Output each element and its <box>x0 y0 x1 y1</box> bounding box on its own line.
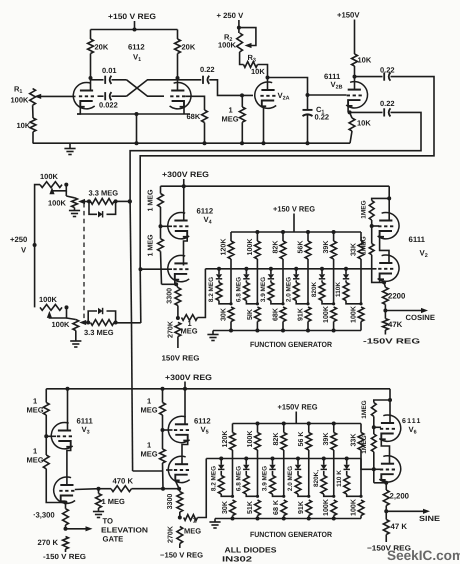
resistor 20K (right) <box>175 39 181 54</box>
wire cross-coupling plate-to-grid <box>127 80 165 96</box>
node V2A plate <box>266 76 270 80</box>
label 0.01 <box>102 66 117 75</box>
svg-text:56K: 56K <box>296 240 304 254</box>
node V2B grid junction <box>306 93 310 97</box>
svg-text:1: 1 <box>147 397 151 406</box>
wire right plate wire <box>177 54 179 90</box>
svg-text:0.22: 0.22 <box>200 65 215 74</box>
potentiometer 100K (upper az) <box>40 182 62 188</box>
svg-text:+150 V REG: +150 V REG <box>108 12 156 21</box>
label SINE <box>419 514 440 523</box>
label 6112 (V4) <box>197 207 214 216</box>
svg-text:+150 V REG: +150 V REG <box>273 205 315 214</box>
svg-text:100K: 100K <box>246 430 254 448</box>
label 6111 (V6) <box>402 418 422 425</box>
label 68K <box>187 112 201 121</box>
label R1 <box>14 85 22 96</box>
node V4b grid tap <box>139 267 143 271</box>
svg-text:−150 V REG: −150 V REG <box>160 551 203 560</box>
label 820K (cos col5) <box>311 281 318 297</box>
wire diode lead (cos col6) <box>345 269 347 274</box>
resistor 1 MEG (to gnd) <box>96 489 102 512</box>
svg-text:+250: +250 <box>10 235 27 244</box>
wire R2 wiper loop <box>239 28 256 48</box>
node 68K ground junction <box>203 141 207 145</box>
wire V1b plate to 0.22 <box>178 79 202 81</box>
resistor 1 MEG (V3cos lower) <box>369 226 384 282</box>
label 100K (R1) <box>11 96 30 105</box>
label COSINE <box>406 313 436 322</box>
diode (cos col3) <box>268 274 274 279</box>
label 39K (cos col5) <box>322 240 330 254</box>
svg-text:ELEVATION: ELEVATION <box>101 526 148 535</box>
svg-text:100K: 100K <box>52 320 71 329</box>
node lower integrator out <box>86 321 90 325</box>
resistor 39K (sine col5) <box>331 424 337 497</box>
node rail (cos col4) <box>306 230 310 234</box>
wire COSINE arrow <box>385 308 428 313</box>
label 6111 (V3bl) <box>77 417 94 426</box>
label 0.22 (V1 out) <box>200 65 215 74</box>
diode (sine col4) <box>295 465 301 470</box>
wire +150V lead <box>354 20 356 55</box>
resistor 2200 <box>383 282 389 310</box>
svg-text:0.22: 0.22 <box>380 99 395 108</box>
diode (cos col4) <box>293 274 299 279</box>
svg-text:100K: 100K <box>322 498 330 516</box>
svg-text:1: 1 <box>33 397 37 406</box>
label V6 <box>409 425 417 436</box>
resistor 10K (V2B plate) <box>352 54 358 66</box>
node breakpoint bus (cos col4) <box>294 267 298 271</box>
wire +150V tick (sine FG) <box>295 412 297 424</box>
svg-text:56 K: 56 K <box>297 431 305 447</box>
label 6111 (V3cos) <box>409 235 426 244</box>
svg-text:100K: 100K <box>11 96 30 105</box>
wire TO ELEVATION GATE arrow <box>66 526 93 531</box>
label 0.022 <box>99 101 118 110</box>
wire V4b cathode lead <box>174 280 176 284</box>
wire +300V to V3 plate <box>388 186 390 220</box>
label FUNCTION GENERATOR (cos) <box>250 340 332 349</box>
svg-text:120K: 120K <box>221 430 229 448</box>
svg-text:33K: 33K <box>349 433 357 447</box>
wire 68K to ground rail <box>204 123 206 144</box>
resistor 6.8 MEG (cos col2) <box>244 280 258 304</box>
wire diode lead (cos col5) <box>321 269 323 274</box>
label 51K (sine col2) <box>246 500 254 514</box>
wire R3 to V2A plate <box>258 65 268 78</box>
resistor 1 MEG (V5 upper) <box>160 389 166 430</box>
triode V4a <box>168 212 189 238</box>
wire lower wiper arm <box>79 320 88 325</box>
triode V2A <box>255 82 276 108</box>
svg-text:1MEG: 1MEG <box>361 400 368 418</box>
node elevation gate tap <box>64 527 68 531</box>
node V5b cathode <box>177 487 181 491</box>
wire diode lead (cos col4) <box>295 269 297 274</box>
node ground bus (sine col3) <box>282 517 286 521</box>
resistor 8.2 MEG (sine col1) <box>218 471 232 496</box>
svg-text:470 K: 470 K <box>113 477 134 486</box>
node ground bus (sine col1) <box>231 517 235 521</box>
resistor 82K (sine col3) <box>281 424 287 497</box>
diode (sine col5) <box>321 465 327 470</box>
label 110K (cos col6) <box>335 282 342 297</box>
node V3b-bl cathode <box>64 501 68 505</box>
resistor 1 MEG (V3bl upper) <box>43 389 49 437</box>
wire +300V REG rail (mid) <box>161 185 390 187</box>
resistor 100K (sine col6) <box>358 500 364 519</box>
resistor 820K, (sine col5) <box>321 471 334 496</box>
node divider (cos col1) <box>229 302 232 305</box>
wire feedback jog to 470K node <box>133 470 163 472</box>
label TO <box>103 517 114 526</box>
resistor 91K (sine col4) <box>306 500 312 519</box>
resistor 820K (cos col5) <box>319 280 334 304</box>
svg-text:5IK: 5IK <box>246 308 254 320</box>
capacitor 0.022 <box>105 92 111 100</box>
svg-text:47 K: 47 K <box>391 522 408 531</box>
svg-text:30K: 30K <box>219 307 227 321</box>
wire V6a grid lead <box>374 426 381 428</box>
wire V3b cathode lead <box>379 279 381 282</box>
svg-text:20K: 20K <box>182 43 196 52</box>
resistor 2.0 MEG (sine col4) <box>295 471 309 496</box>
resistor 1 MEG (V6 upper) <box>371 400 390 427</box>
node V1b plate <box>176 76 180 80</box>
svg-text:SINE: SINE <box>419 514 440 523</box>
label V2A <box>278 91 290 102</box>
resistor 110K (cos col6) <box>343 280 361 304</box>
wire V3a-bl plate lead <box>67 389 69 431</box>
svg-text:51K: 51K <box>246 500 254 514</box>
node breakpoint bus (cos col2) <box>244 267 248 271</box>
wire +250V riser <box>35 185 40 308</box>
label 2200 <box>388 292 406 301</box>
wire cosine FG input bus <box>205 268 376 270</box>
node ground bus (sine col4) <box>307 517 311 521</box>
wire V2A cathode lead <box>263 107 265 143</box>
wire V2A plate lead <box>267 78 269 91</box>
svg-text:-150V REG: -150V REG <box>363 337 420 346</box>
node divider (sine col5) <box>332 495 335 498</box>
svg-text:‧3,300: ‧3,300 <box>33 511 55 520</box>
node V6b grid <box>372 467 376 471</box>
svg-text:100K: 100K <box>40 172 59 181</box>
ground (multivibrator) <box>64 149 75 155</box>
label 56 K (sine col4) <box>297 431 305 447</box>
svg-text:MEG: MEG <box>27 406 44 415</box>
node ground bus (cos col3) <box>281 329 285 333</box>
diode (sine col6) <box>344 465 350 470</box>
resistor 100K (cos col6) <box>358 307 364 331</box>
svg-text:82K: 82K <box>272 432 280 446</box>
wire upper wiper arm <box>78 199 89 204</box>
resistor 3.9 MEG (cos col3) <box>268 280 283 304</box>
resistor 68K <box>202 110 208 123</box>
label -150V REG (sine) <box>367 544 411 553</box>
wire +250V lead <box>238 20 240 33</box>
svg-text:10K: 10K <box>357 119 371 128</box>
triode V6b <box>379 456 400 482</box>
ground (lower pot) <box>70 341 81 347</box>
wire V3a-bl cathode to V3b plate <box>67 447 71 485</box>
wire V3a cathode to V3b plate <box>380 237 389 263</box>
node V6b cathode <box>384 481 388 485</box>
label 100K (upper vert) <box>48 199 67 208</box>
resistor 1 MEG (V5 horiz) <box>184 459 207 521</box>
wire lower pot wiper loop <box>47 307 67 318</box>
node breakpoint bus (cos col5) <box>320 267 324 271</box>
wire diode lead (cos col1) <box>218 269 220 274</box>
wire ground stub <box>69 143 71 148</box>
diode (sine col3) <box>269 465 275 470</box>
wire R2 to R3 <box>240 52 244 65</box>
label 6.8 MEG (sine col2) <box>235 466 242 491</box>
wire sine bus to V6b grid <box>361 459 374 470</box>
wire V5b cathode lead <box>175 481 179 489</box>
wire V2A plate to V2B grid <box>268 78 308 96</box>
node V2A cathode ground <box>262 141 266 145</box>
resistor 3.3 MEG (lower) <box>91 320 115 326</box>
wire upper feedback loop <box>140 77 434 270</box>
label V5 <box>201 425 209 436</box>
label 1 MEG (to gnd) <box>102 497 126 506</box>
resistor 6.8 MEG (sine col2) <box>243 471 257 496</box>
label 1 MEG (V6 lower) <box>361 435 368 453</box>
label 91K (cos col4) <box>296 307 304 321</box>
svg-text:82K: 82K <box>271 240 279 254</box>
label +150V (top right) <box>337 11 360 20</box>
svg-text:100K: 100K <box>349 498 357 516</box>
label 270K (V5) <box>167 525 175 543</box>
node V1 rail junction <box>133 28 137 32</box>
node 1MEG ground junction <box>240 141 244 145</box>
wire to inner feedback <box>116 322 141 324</box>
node V4 bias junction <box>176 316 180 320</box>
resistor 30K (sine col1) <box>230 500 236 519</box>
wire right 20K lead <box>177 30 179 40</box>
svg-text:MEG: MEG <box>222 115 239 124</box>
wire lower diode loop <box>88 311 115 323</box>
resistor 100K (sine col2) <box>255 424 261 497</box>
label 1 (V5 lower) <box>147 441 151 450</box>
label 100K (sine col6) <box>349 498 357 516</box>
label 100K (cos col5) <box>322 305 330 323</box>
triode V3b (bottom left) <box>54 477 75 503</box>
label 0.22 (lower fb) <box>380 99 395 108</box>
node multivib ground junction <box>135 141 139 145</box>
svg-text:91K: 91K <box>297 500 305 514</box>
wire V1a grid lead <box>38 95 76 97</box>
node 470K right <box>161 487 165 491</box>
wire lower pot to ground <box>75 331 77 342</box>
wire cathode tie to 1MEG <box>162 283 177 285</box>
svg-text:100K: 100K <box>39 295 58 304</box>
label +250 (mid) <box>10 235 27 244</box>
svg-text:270K: 270K <box>167 525 175 543</box>
resistor 470 K <box>111 486 132 492</box>
wire sine FG input bus <box>206 458 361 460</box>
svg-text:3.3 MEG: 3.3 MEG <box>89 189 119 198</box>
resistor 5IK (cos col2) <box>255 307 261 331</box>
label 47K <box>388 320 403 329</box>
label 82K (sine col3) <box>272 432 280 446</box>
diode (cos col2) <box>243 274 249 279</box>
triode V2B <box>346 82 367 108</box>
capacitor C1 0.22 <box>303 110 313 116</box>
node V5a plate supply <box>183 387 187 391</box>
capacitor 0.01 <box>105 76 111 84</box>
label 3300 (V4) <box>165 288 173 304</box>
wire diode lead (sine col3) <box>272 459 274 465</box>
wire +300V tick (bottom) <box>184 382 186 389</box>
label 3.9 MEG (cos col3) <box>260 277 267 302</box>
wire R1 wiper <box>34 94 41 99</box>
svg-text:+ 250 V: + 250 V <box>217 11 245 20</box>
svg-text:20K: 20K <box>95 43 109 52</box>
label 3.3 MEG (lower) <box>84 328 114 337</box>
svg-text:100K: 100K <box>218 41 237 50</box>
wire grid line to V2B <box>308 94 347 96</box>
wire C1 bottom lead <box>307 115 309 144</box>
svg-text:0.01: 0.01 <box>102 66 117 75</box>
wire V4a plate lead <box>183 186 185 220</box>
label 10K (V2B plate) <box>358 56 372 65</box>
triode V5a <box>168 416 189 442</box>
label 20K (left) <box>95 43 109 52</box>
resistor R3 10K <box>244 62 258 68</box>
label GATE <box>103 535 124 544</box>
wire cosine FG ground bus <box>213 330 361 332</box>
label MEG (V3bl lower) <box>27 456 44 465</box>
label 6111 (V2) <box>324 72 341 81</box>
svg-text:270K: 270K <box>166 320 174 338</box>
node rail (sine col4) <box>307 422 311 426</box>
svg-text:39K: 39K <box>322 432 330 446</box>
node 3.3MEG right (lower) <box>114 321 118 325</box>
label 100K (lower vert) <box>52 320 71 329</box>
svg-text:91K: 91K <box>296 307 304 321</box>
node breakpoint bus (sine col3) <box>271 457 275 461</box>
label 91K (sine col4) <box>297 500 305 514</box>
node V3a-bl grid <box>44 434 48 438</box>
node breakpoint bus (sine col1) <box>219 457 223 461</box>
svg-text:100K: 100K <box>349 305 357 323</box>
wire V6a cathode to V6b plate <box>381 439 389 463</box>
resistor 120K (cos col1) <box>228 232 234 304</box>
label 100K (R2) <box>218 41 237 50</box>
node breakpoint bus (cos col1) <box>217 267 221 271</box>
svg-text:8.2 MEG: 8.2 MEG <box>208 277 215 302</box>
resistor 1 MEG (V4 horiz) <box>182 269 206 321</box>
capacitor 0.22 (upper fb) <box>384 73 390 81</box>
resistor 120K (sine col1) <box>230 424 236 497</box>
capacitor 0.22 (V1 out) <box>203 76 209 84</box>
label 270K (V4) <box>166 320 174 338</box>
resistor 33K (sine col6) <box>358 424 364 497</box>
label 1 (V3bl lower) <box>33 447 37 456</box>
node V5a grid <box>161 428 165 432</box>
wire +300V tick (mid) <box>183 179 185 186</box>
node V1a plate <box>89 76 93 80</box>
wire 470K left lead <box>99 488 112 490</box>
label 1 MEG (V4 upper) <box>147 189 155 212</box>
wire inner feedback vertical <box>139 269 142 323</box>
svg-text:39K: 39K <box>322 240 330 254</box>
node +250V tap <box>33 243 37 247</box>
svg-text:820K,: 820K, <box>313 470 320 487</box>
svg-text:2200: 2200 <box>388 292 406 301</box>
resistor 51K (sine col2) <box>255 500 261 519</box>
wire V4a cathode to V4b plate <box>184 237 188 266</box>
ground (upper pot) <box>69 211 80 217</box>
potentiometer 100K (lower az) <box>40 305 62 311</box>
label 270 K <box>38 538 59 547</box>
wire V5b grid stub <box>166 469 173 471</box>
svg-text:8.2 MEG: 8.2 MEG <box>210 466 217 491</box>
potentiometer R1 100K <box>30 89 36 106</box>
wire V2B cathode lead <box>347 107 349 113</box>
label 8.2 MEG (cos col1) <box>208 277 215 302</box>
label 120K (sine col1) <box>221 430 229 448</box>
resistor 100K (cos col2) <box>255 232 261 304</box>
svg-text:30K: 30K <box>221 500 229 514</box>
label 100K (cos col2) <box>246 238 254 256</box>
svg-text:0.22: 0.22 <box>315 113 330 122</box>
diode (lower loop) <box>98 308 103 314</box>
diode (upper loop) <box>98 211 103 217</box>
label 100K (sine col5) <box>322 498 330 516</box>
potentiometer R2 100K <box>237 33 243 52</box>
node V3 plate/1MEG <box>387 196 391 200</box>
wire V4a grid lead <box>161 225 173 227</box>
label V2 (V3cos) <box>420 249 428 260</box>
node lower pot right <box>65 305 69 309</box>
node breakpoint bus (sine col2) <box>244 457 248 461</box>
ground (1MEG) <box>93 512 104 518</box>
label 1 (V3bl upper) <box>33 397 37 406</box>
diode (sine col1) <box>218 465 224 470</box>
wire lower feedback loop <box>130 112 421 201</box>
svg-text:1: 1 <box>229 106 233 115</box>
resistor 1 MEG (V4 lower) <box>158 226 164 284</box>
wire V3b-bl grid lead <box>75 488 99 491</box>
label 39K (sine col5) <box>322 432 330 446</box>
resistor 1 MEG (V2A grid) <box>239 95 245 143</box>
svg-text:33K: 33K <box>349 242 357 256</box>
label 2.0 MEG (sine col4) <box>287 466 294 491</box>
resistor 3.3 MEG (upper) <box>91 199 115 205</box>
label 47 K <box>391 522 408 531</box>
node breakpoint bus (sine col6) <box>345 457 349 461</box>
resistor 2,200 <box>383 483 389 512</box>
diode (cos col6) <box>343 274 349 279</box>
label +250 V (top) <box>217 11 245 20</box>
wire 0.022 left lead <box>98 95 104 97</box>
svg-text:100K: 100K <box>48 199 67 208</box>
wire 0.01 right lead <box>112 79 127 81</box>
label 1 (V5 upper) <box>147 397 151 406</box>
label ELEVATION <box>101 526 148 535</box>
label FUNCTION GENERATOR (sine) <box>250 530 332 539</box>
wire V1 plate supply rail <box>91 29 178 31</box>
wire diode lead (sine col6) <box>346 459 348 465</box>
wire 0.22 to V2A grid <box>209 80 253 96</box>
triode V5b <box>168 456 189 482</box>
label 68K (cos col3) <box>271 307 279 321</box>
